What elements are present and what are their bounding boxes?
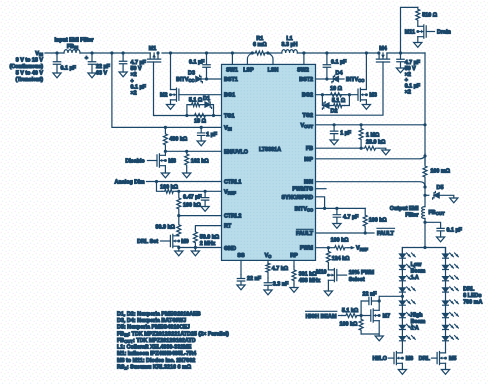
resistor 100 kOhm PWM to VREF (332, 246, 349, 250)
resistor 28.0 kOhm FB bottom (361, 146, 379, 150)
svg-text:D3: D3 (188, 71, 195, 77)
LED right string D8 (443, 337, 449, 341)
junction LED bus T (423, 246, 426, 249)
LED left string D8 (400, 337, 406, 341)
svg-text:M4: M4 (379, 46, 387, 52)
junction BST2 node (325, 77, 328, 80)
svg-text:D5: D5 (437, 185, 444, 191)
diode D3 from INTVCC to BST1 (196, 76, 201, 81)
svg-text:CTRL1: CTRL1 (224, 180, 241, 186)
junction BG2 bypass right (348, 93, 351, 96)
svg-text:VOUT: VOUT (301, 123, 314, 129)
junction M4 left stub (377, 51, 380, 54)
svg-text:5.1 kΩ: 5.1 kΩ (342, 308, 359, 314)
svg-text:VC: VC (265, 253, 272, 259)
svg-text:×2: ×2 (131, 91, 137, 97)
transistor M8 (157, 154, 165, 167)
svg-text:5.1 Ω: 5.1 Ω (189, 97, 203, 103)
wire left LED string vertical segments (401, 248, 403, 353)
capacitor 22nF SS (237, 275, 244, 286)
svg-text:1 A: 1 A (411, 275, 419, 281)
LED right string D4 (443, 288, 449, 292)
diode D5 clamp (434, 193, 439, 198)
svg-text:LSP: LSP (243, 68, 254, 74)
wire right LED string top drop (445, 248, 447, 254)
capacitor 0.1uF BST1 bootstrap (203, 53, 210, 79)
svg-text:100 kΩ: 100 kΩ (339, 322, 357, 328)
resistor 10 ohm TG2side (326, 93, 346, 97)
capacitor 3.3nF VC (264, 278, 271, 290)
ground M6 (398, 370, 406, 375)
wire CTRL1 drop to 100k (157, 182, 163, 192)
wire M1 gate to TG1 net (153, 62, 156, 116)
junction SW1 drop (231, 51, 234, 54)
diode D4 from INTVCC to BST2 (333, 76, 338, 81)
wire rail L1 to M4 (297, 52, 378, 54)
wire midtap to M7 drain (379, 296, 402, 310)
svg-text:×2: ×2 (131, 72, 137, 78)
resistor 100 kOhm VREF-CTRL2 (177, 191, 181, 215)
svg-text:0.47 µF: 0.47 µF (183, 195, 202, 201)
wire SS pin down (240, 260, 242, 274)
svg-text:10% PWM: 10% PWM (349, 270, 375, 276)
wire M2 drain riser (170, 53, 172, 90)
junction BST2 cap on SW2 rail (325, 51, 328, 54)
capacitor 0.47uF VREF (201, 191, 208, 206)
svg-text:63 V: 63 V (96, 71, 107, 77)
wire VREF pin (176, 190, 222, 192)
junction CTRL2 node (177, 214, 180, 217)
junction ISP on rail (423, 154, 426, 157)
transistor M1 series NMOS (148, 53, 161, 62)
junction ISN on rail (423, 185, 426, 188)
svg-text:+: + (131, 78, 134, 84)
ground SS cap (237, 285, 245, 290)
svg-text:INTVCC: INTVCC (346, 77, 364, 83)
wire RT pin (195, 226, 221, 229)
svg-text:2 MHz: 2 MHz (200, 241, 216, 247)
diode D2 (324, 103, 329, 108)
ground D5 (450, 198, 458, 203)
svg-text:Drain: Drain (437, 30, 451, 36)
wire input riser to VIN pin (112, 53, 222, 127)
svg-text:Beam: Beam (411, 268, 426, 274)
junction input 0.1uF (55, 51, 58, 54)
junction D5 on rail (423, 194, 426, 197)
ground VC (264, 290, 272, 295)
wire GND stub down (194, 248, 196, 252)
svg-text:M7: M7 (383, 314, 391, 320)
wire EN/UVLO pin (165, 150, 221, 152)
svg-text:301 kΩ: 301 kΩ (299, 272, 317, 278)
wire BST1 pin (207, 78, 222, 80)
svg-text:CTRL2: CTRL2 (224, 214, 241, 220)
ground M9 (175, 251, 183, 256)
ground RP (290, 288, 298, 293)
wire 28k to ground (379, 148, 386, 150)
svg-text:M1: M1 (149, 46, 157, 52)
svg-text:Output EMI: Output EMI (390, 206, 419, 212)
wire GND pin (179, 247, 222, 249)
svg-text:3.3 µH: 3.3 µH (282, 42, 298, 48)
LED left string D3 (400, 277, 406, 281)
svg-text:D1, D2: Nexperia PMEG2010AEB: D1, D2: Nexperia PMEG2010AEB (117, 312, 201, 318)
wire D3 cathode to BST1 node (201, 78, 207, 80)
junction EN node (164, 150, 167, 153)
wire LSP tap (247, 53, 252, 64)
wire PWMTG stub (316, 188, 327, 190)
junction BST1 node (205, 77, 208, 80)
wire INTVCC pin (316, 207, 366, 209)
wire VC pin down (267, 260, 269, 263)
svg-text:M3: M3 (369, 93, 377, 99)
wire BG1 pin to M2 gate (179, 94, 222, 96)
wire M11 branch riser (401, 7, 418, 53)
wire VOUT pin to rail (316, 124, 426, 126)
svg-text:22 nF: 22 nF (247, 276, 262, 282)
svg-text:Filter: Filter (405, 213, 419, 219)
resistor 100 kOhm CTRL1-VREF (162, 189, 176, 193)
svg-text:M9: M9 (181, 239, 189, 245)
ground M10 (324, 291, 332, 296)
svg-text:GND: GND (224, 246, 236, 252)
junction 0.47uF on VREF (204, 190, 207, 193)
wire M3 source to ground (365, 100, 367, 105)
LED right string D1 (443, 254, 449, 258)
wire BST2 node to D4 (327, 78, 333, 80)
ground 1uF VOUT (330, 140, 338, 145)
resistor 301 kOhm RP (292, 267, 296, 285)
capacitor 1uF VOUT (330, 125, 337, 140)
wire LED bus (402, 247, 445, 249)
svg-text:28.0 kΩ: 28.0 kΩ (366, 140, 386, 146)
svg-text:10 Ω: 10 Ω (194, 119, 206, 125)
wire M11 gate to Drain label (426, 31, 434, 33)
wire FB pin (316, 147, 362, 149)
wire M2 source to ground (170, 100, 172, 105)
svg-text:High: High (411, 313, 423, 319)
svg-text:D3, D4: Nexperia BAT46WJ: D3, D4: Nexperia BAT46WJ (117, 318, 186, 324)
svg-text:EN/UVLO: EN/UVLO (224, 149, 248, 155)
junction PWM node (327, 246, 330, 249)
LED left string D5 (400, 301, 406, 305)
transistor M7 (371, 309, 379, 322)
svg-text:100 mΩ: 100 mΩ (430, 169, 450, 175)
svg-text:0.1 µF: 0.1 µF (189, 60, 205, 66)
svg-text:L1: L1 (286, 36, 292, 42)
wire 22nF left to gate node (360, 301, 362, 316)
junction input 4.7uF cluster (122, 51, 125, 54)
svg-text:1 A: 1 A (411, 326, 419, 332)
resistor 162 kOhm (185, 151, 189, 173)
wire M9 source to ground (178, 246, 180, 251)
svg-text:3.3 nF: 3.3 nF (273, 282, 289, 288)
transistor M5 DRL switch (437, 352, 445, 365)
wire RP pin down (293, 260, 295, 266)
svg-text:D4: D4 (336, 71, 343, 77)
resistor 4.7 kOhm VC (266, 263, 270, 278)
svg-text:59.0 kΩ: 59.0 kΩ (200, 235, 220, 241)
svg-text:Beam: Beam (411, 319, 426, 325)
svg-text:SS: SS (237, 253, 245, 259)
wire rail sense to FBOUT (424, 184, 426, 207)
svg-text:FBOUT: TDK MPZ2012S102ATD: FBOUT: TDK MPZ2012S102ATD (117, 338, 196, 344)
ground output cap cluster (396, 68, 404, 73)
wire VIN rail from label to ferrite bead (45, 52, 64, 54)
wire VOUT rail corner down to sense resistor (424, 53, 426, 164)
svg-text:DRL: DRL (463, 287, 475, 293)
svg-text:BG2: BG2 (302, 93, 313, 99)
ground M2 source (166, 105, 174, 110)
ground M5 (441, 370, 449, 375)
svg-text:Disable: Disable (125, 159, 144, 165)
wire M7 source and 100k to ground (361, 321, 379, 336)
svg-text:TG1: TG1 (224, 114, 234, 120)
LED right string D5 (443, 301, 449, 305)
ground FB divider (382, 150, 390, 155)
svg-text:VIN: VIN (224, 125, 232, 131)
resistor 5.1 ohm BG2 bypass (331, 104, 345, 108)
svg-text:Analog Dim: Analog Dim (115, 180, 145, 186)
wire SW1 pin drop (231, 53, 233, 64)
ground GND pin (191, 251, 199, 256)
resistor 1 MOhm FB top (359, 125, 363, 148)
wire M3 drain riser (365, 53, 367, 90)
svg-text:FBIN: FBIN (67, 44, 78, 50)
junction TG1 left node (185, 114, 188, 117)
wire M10 source to ground (327, 280, 329, 291)
svg-text:RT: RT (224, 224, 232, 230)
junction 22nF right on M7 drain line (378, 299, 381, 302)
resistor 124 kOhm (326, 248, 330, 266)
svg-text:HIGH BEAM: HIGH BEAM (306, 314, 337, 320)
junction 1uF VIN (200, 126, 203, 129)
junction RT resistor to GND (194, 246, 197, 249)
junction output cap 0.1uF (423, 221, 426, 224)
junction M9 source on GND wire (177, 246, 180, 249)
svg-text:FB: FB (306, 146, 313, 152)
wire M10 gate stub (337, 274, 347, 276)
resistor 100 kOhm FAULT pullup (363, 208, 367, 233)
svg-text:4.7 µF: 4.7 µF (343, 215, 359, 221)
svg-text:BG1: BG1 (224, 93, 235, 99)
svg-text:M8: M8 (168, 159, 176, 165)
ground 0.47uF (201, 207, 209, 212)
junction 4.7uF INTVCC (335, 207, 338, 210)
svg-text:0.1 µF: 0.1 µF (131, 84, 147, 90)
svg-text:(Continuous): (Continuous) (9, 64, 43, 70)
svg-text:INTVCC: INTVCC (176, 77, 194, 83)
svg-text:5 V to 40 V: 5 V to 40 V (16, 71, 44, 77)
svg-text:TG2: TG2 (303, 113, 313, 119)
resistor 100 mOhm sense (423, 156, 427, 187)
wire rail M4 to corner (387, 52, 425, 54)
svg-text:LSN: LSN (268, 68, 279, 74)
svg-text:×2: ×2 (405, 90, 411, 96)
ground input 0.1uF (53, 73, 61, 78)
ground input 4.7uF cluster (119, 72, 127, 77)
ferrite bead FBIN (64, 50, 80, 53)
transistor M6 HI/LO switch (394, 352, 402, 365)
ground M7 (375, 336, 383, 341)
capacitor 1uF VIN (198, 127, 205, 141)
svg-text:M8 to M11: Diodes Inc. 2N7002: M8 to M11: Diodes Inc. 2N7002 (117, 358, 195, 364)
LED left string D2 (400, 265, 406, 269)
wire rail R1 to L1 (268, 52, 282, 54)
svg-text:124 kΩ: 124 kΩ (332, 256, 350, 262)
LED right string D3 (443, 277, 449, 281)
wire TG1 pin segment (154, 115, 221, 117)
wire D1 cathode down to TG1 (210, 105, 213, 116)
svg-text:DRL Set: DRL Set (137, 239, 158, 245)
wire 124k to M10 drain (327, 266, 329, 270)
svg-text:22 nF: 22 nF (362, 291, 377, 297)
wire CTRL2 pin (179, 215, 222, 217)
wire M5 gate stub (432, 357, 438, 359)
transistor M11 (418, 25, 426, 38)
ground 0.1uF output (437, 237, 445, 242)
capacitor 0.1uF input (53, 53, 60, 73)
ground M8 (161, 173, 169, 178)
LED left string D1 (400, 254, 406, 258)
svg-text:DRL: DRL (419, 356, 431, 362)
svg-text:D2: D2 (331, 109, 338, 115)
junction FB divider top (360, 123, 363, 126)
wire PWM pin (316, 247, 332, 249)
LED right string D2 (443, 265, 449, 269)
wire right LED string vertical segments (445, 248, 447, 353)
wire RP resistor to ground (293, 284, 295, 288)
svg-text:1 MΩ: 1 MΩ (366, 132, 380, 138)
svg-text:700 mA: 700 mA (463, 300, 482, 306)
wire EN to M8 drain (164, 151, 166, 155)
inductor FBOUT ferrite (422, 207, 425, 219)
wire 5.1ohm up to gate node (345, 95, 350, 106)
junction FAULT pullup (364, 231, 367, 234)
wire HIGH BEAM to 5.1k (339, 315, 342, 317)
resistor 5.1 ohm TG1 bypass (189, 103, 203, 107)
svg-text:ISN: ISN (304, 180, 313, 186)
svg-text:1 µF: 1 µF (206, 132, 218, 138)
wire arrow to VREF (348, 247, 352, 249)
transistor M3 (358, 88, 366, 101)
junction M3 drain on SW2 rail (365, 51, 368, 54)
resistor 499 kOhm (163, 127, 167, 151)
wire FAULT pin (316, 232, 375, 234)
junction 100k2 top on VREF (177, 190, 180, 193)
resistor 5.1 kOhm high beam (342, 314, 362, 318)
transistor M4 series NMOS (376, 53, 389, 62)
svg-text:4.7 µF: 4.7 µF (131, 60, 147, 66)
op-amp U1 LT8391A controller IC body (222, 64, 316, 260)
ground M3 source (362, 105, 370, 110)
resistor 510 ohm (416, 7, 420, 26)
wire Analog Dim to CTRL1 (147, 181, 222, 183)
svg-text:50 V: 50 V (131, 66, 142, 72)
svg-text:0.1 µF: 0.1 µF (331, 60, 347, 66)
resistor 100 kOhm M7 gate (359, 316, 363, 335)
svg-text:VIN: VIN (35, 51, 43, 57)
ground M11 source (414, 43, 422, 48)
ground input 22uF (88, 73, 96, 78)
wire rail to D5 cathode (425, 194, 429, 196)
svg-text:100 kΩ: 100 kΩ (369, 217, 387, 223)
svg-text:6 mΩ: 6 mΩ (253, 42, 267, 48)
svg-text:M10: M10 (316, 270, 327, 276)
wire ISN pin to sense bottom (316, 182, 426, 187)
svg-text:RSx: Susumu KRL3216 6 mΩ: RSx: Susumu KRL3216 6 mΩ (117, 364, 192, 370)
junction input 22uF (90, 51, 93, 54)
svg-text:PWM: PWM (300, 246, 314, 252)
svg-text:M11: M11 (405, 30, 415, 36)
svg-text:D1: D1 (203, 96, 210, 102)
svg-text:22 µF: 22 µF (96, 64, 111, 70)
wire D2 to 5.1 ohm (329, 105, 331, 107)
junction M7 gate node (360, 314, 363, 317)
svg-text:VREF: VREF (224, 189, 236, 195)
wire M6 source to ground (401, 363, 403, 369)
junction left string midtap (401, 295, 404, 298)
wire D5 anode to ground (439, 195, 454, 198)
svg-text:100 kΩ: 100 kΩ (183, 202, 201, 208)
junction FB node (360, 147, 363, 150)
ground 4.7uF INTVCC (333, 224, 341, 229)
svg-text:1 µF: 1 µF (340, 131, 352, 137)
junction R1 right LSN tap (266, 51, 269, 54)
junction R1 left LSP tap (251, 51, 254, 54)
svg-text:M2: M2 (160, 93, 168, 99)
transistor M2 (171, 88, 179, 101)
wire M7 gate stub (361, 315, 371, 317)
svg-text:BST1: BST1 (224, 77, 238, 83)
svg-text:9 V to 18 V: 9 V to 18 V (16, 58, 44, 64)
wire M11 source to ground (417, 37, 419, 43)
svg-text:FAULT: FAULT (377, 231, 395, 237)
junction M1 right stub (156, 51, 159, 54)
wire 5.1ohm to D1 (203, 104, 205, 106)
transistor M9 (170, 234, 178, 247)
svg-text:510 Ω: 510 Ω (422, 13, 437, 19)
wire left LED string top drop (401, 248, 403, 254)
wire BG2 pin to M3 gate (316, 94, 358, 96)
svg-text:4.7 kΩ: 4.7 kΩ (272, 266, 289, 272)
svg-text:8 LEDs: 8 LEDs (463, 293, 481, 299)
capacitor 0.1uF output with branch wire (425, 222, 444, 237)
svg-text:5.1 Ω: 5.1 Ω (332, 98, 346, 104)
capacitor 22 nF M7 (361, 297, 379, 304)
wire SW1 rail segment (162, 52, 252, 54)
svg-text:SYNC/SPRD: SYNC/SPRD (282, 195, 314, 201)
svg-text:100 kΩ: 100 kΩ (331, 238, 349, 244)
wire SW2 pin drop (303, 53, 305, 64)
capacitor 22uF 63V input (88, 53, 95, 73)
LED right string D6 (443, 314, 449, 318)
wire M4 gate to TG2 net (316, 62, 384, 115)
svg-text:PWMTG: PWMTG (292, 187, 313, 193)
capacitor 4.7uF 50V x2 input cluster (119, 53, 126, 72)
wire BG2 bypass branch (322, 95, 323, 106)
svg-text:499 kΩ: 499 kΩ (169, 137, 187, 143)
junction SYNC on INTVCC (323, 207, 326, 210)
svg-text:M6: M6 (406, 356, 414, 362)
junction 1uF VOUT (333, 123, 336, 126)
wire M9 gate stub (161, 240, 171, 242)
svg-text:ISP: ISP (304, 157, 313, 163)
resistor R1 6 mOhm current sense (252, 51, 268, 55)
svg-text:HI/LO: HI/LO (373, 356, 387, 362)
resistor 59.0 kOhm RT (193, 229, 197, 248)
junction SW2 drop (302, 51, 305, 54)
